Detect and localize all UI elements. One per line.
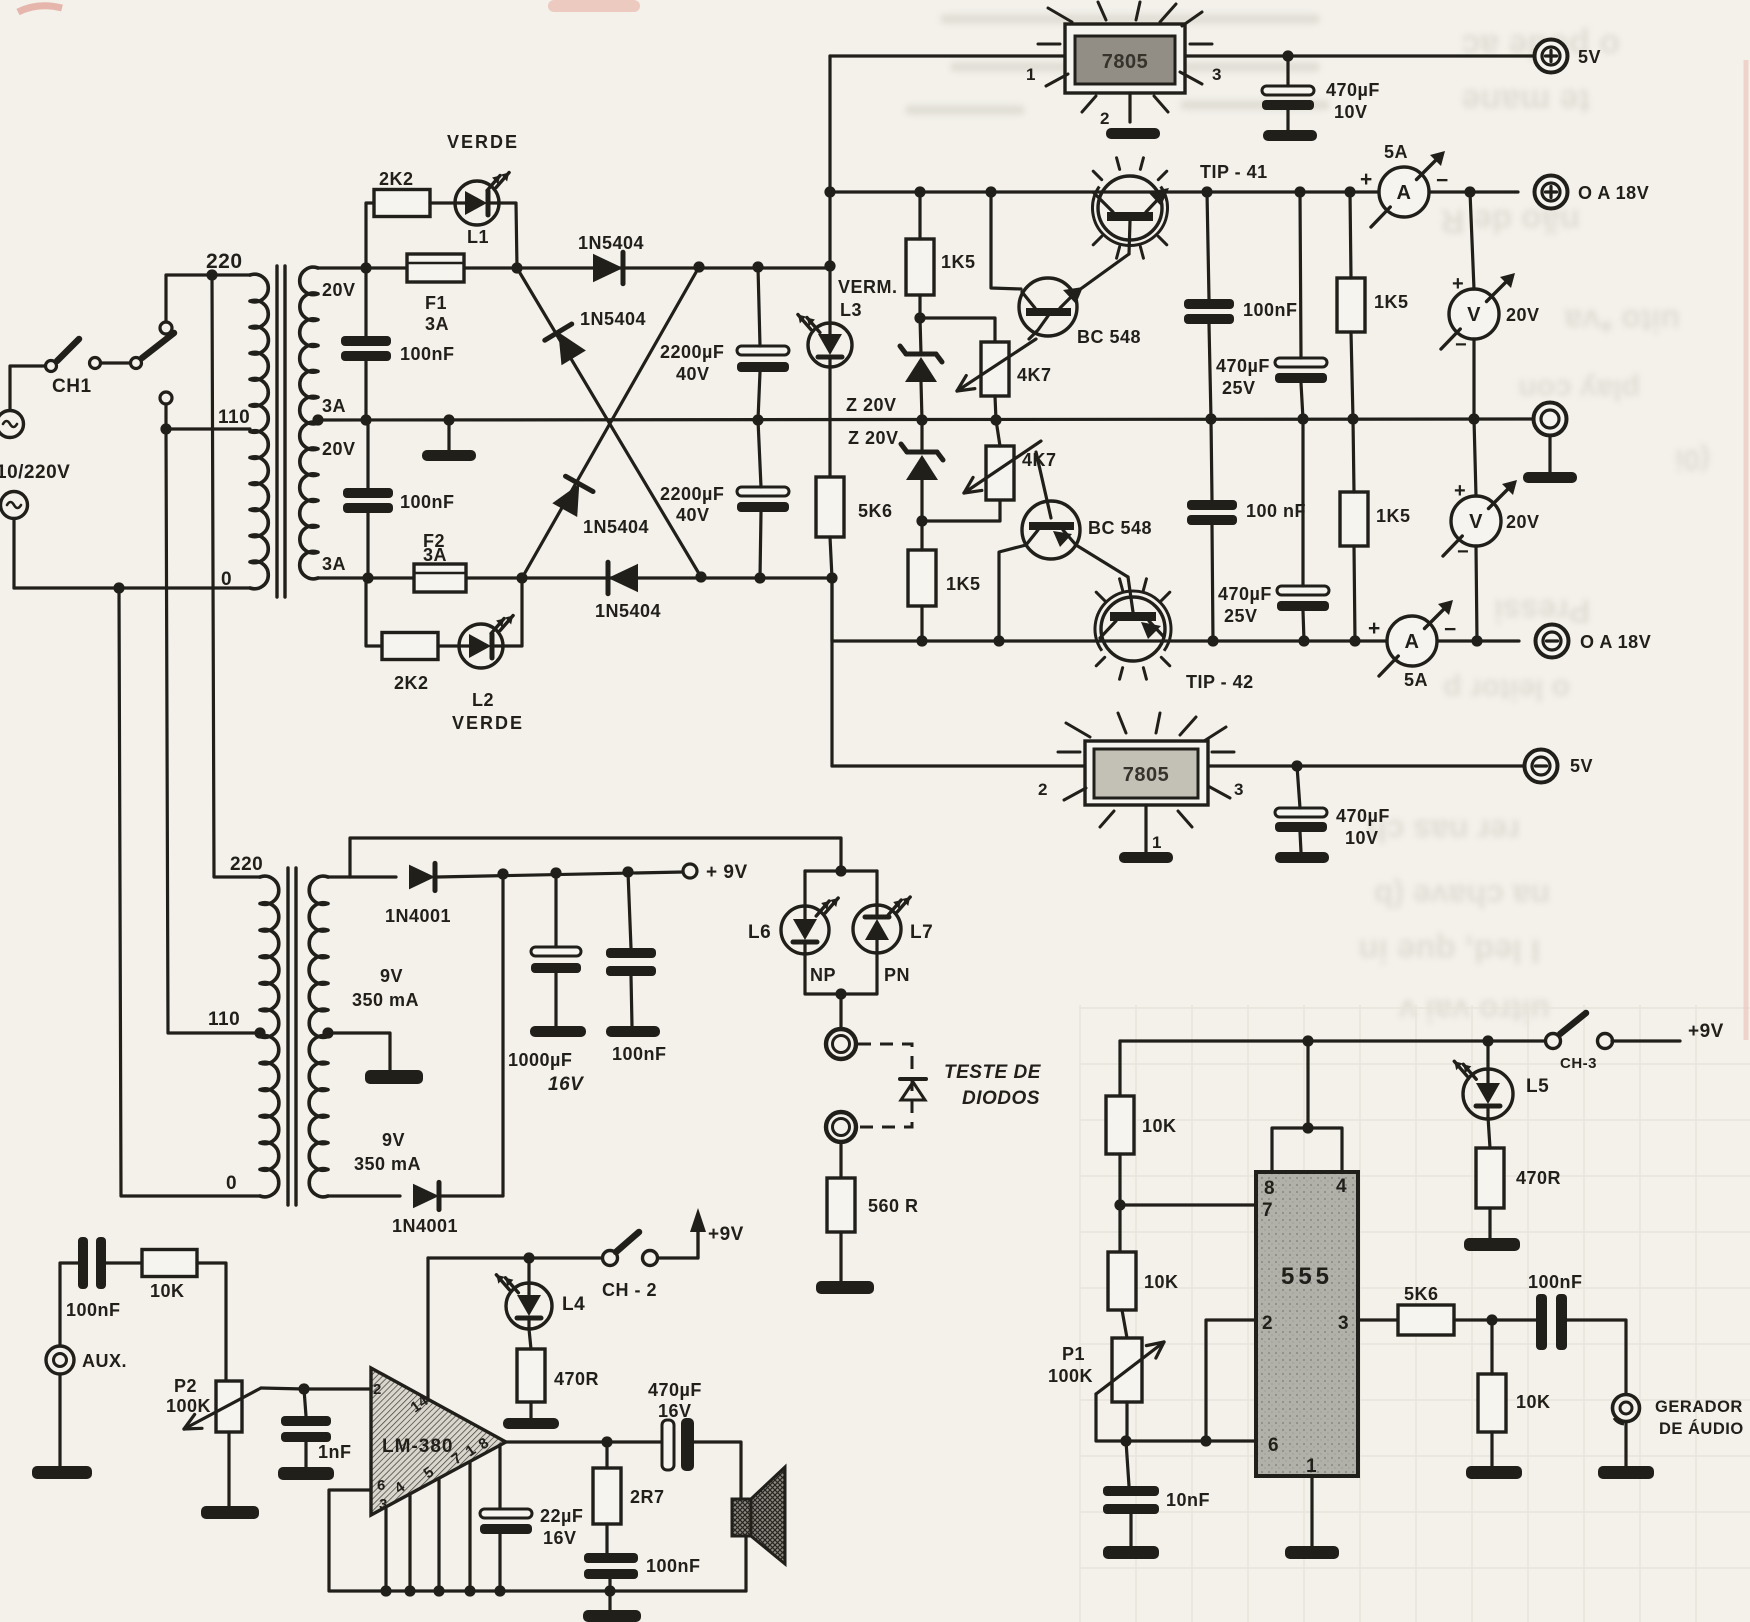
wire 9V return riser <box>441 874 503 1196</box>
svg-text:5V: 5V <box>1570 756 1593 776</box>
svg-text:100nF: 100nF <box>66 1300 121 1320</box>
junction T2 110 tap <box>254 1027 265 1038</box>
transformer T2 core <box>286 868 289 1205</box>
junction bus-Vmeter <box>1464 186 1475 197</box>
junction +5V / 470uF <box>1282 50 1293 61</box>
svg-text:25V: 25V <box>1224 606 1258 626</box>
speaker <box>732 1499 751 1536</box>
wire 10K-c top <box>1490 1320 1493 1374</box>
svg-text:GERADOR: GERADOR <box>1655 1398 1743 1416</box>
terminal +9V small <box>683 864 697 878</box>
junction 9V-1000uF <box>550 867 561 878</box>
svg-text:1: 1 <box>1306 1456 1317 1477</box>
wire speaker to bus <box>744 1536 747 1591</box>
svg-text:1K5: 1K5 <box>941 252 976 272</box>
wire cap to speaker <box>694 1442 741 1499</box>
svg-text:P2: P2 <box>174 1376 197 1396</box>
wire 10K-c gnd <box>1490 1432 1493 1466</box>
svg-text:7805: 7805 <box>1102 51 1149 73</box>
wire AC upper to CH1 <box>10 366 45 410</box>
wire L6L7 top bridge <box>805 869 877 872</box>
svg-text:+: + <box>1452 273 1464 295</box>
junction mid-100nFb <box>1205 413 1216 424</box>
capacitor 100nF 555 <box>1536 1294 1547 1350</box>
ground 560R <box>816 1281 874 1294</box>
junction mid-100nF-left-a <box>360 414 371 425</box>
ground 100nF9 <box>606 1026 660 1037</box>
svg-text:40V: 40V <box>676 505 710 525</box>
resistor 1K5c <box>1337 278 1365 332</box>
resistor 1K5a <box>906 239 934 295</box>
ground 7805a <box>1106 128 1160 139</box>
svg-text:L5: L5 <box>1526 1076 1549 1097</box>
svg-text:100nF: 100nF <box>1243 300 1298 320</box>
wire V1 col <box>1470 192 1474 289</box>
svg-text:te mane: te mane <box>1462 82 1591 120</box>
svg-text:VERM.: VERM. <box>838 277 898 297</box>
svg-text:10K: 10K <box>1144 1272 1179 1292</box>
junction bus 100nF out <box>604 1585 615 1596</box>
svg-text:1: 1 <box>1152 833 1162 852</box>
wire 2200a col <box>758 267 760 346</box>
svg-text:o leitor p: o leitor p <box>1443 673 1570 706</box>
svg-text:350 mA: 350 mA <box>352 990 419 1010</box>
wire 560R to gnd <box>839 1232 842 1281</box>
pot 4K7-a <box>981 342 1009 396</box>
terminal +18V <box>1535 176 1568 209</box>
jack AUX <box>46 1346 74 1374</box>
wire 10K-b to P1 <box>1122 1310 1127 1338</box>
svg-text:9V: 9V <box>380 966 403 986</box>
wire 10K-a to 10K-b <box>1118 1154 1121 1252</box>
svg-text:5V: 5V <box>1578 47 1601 67</box>
svg-text:100nF: 100nF <box>612 1044 667 1064</box>
transformer T1 core <box>275 266 278 597</box>
ground T2 tap <box>365 1070 423 1084</box>
wire pin3 out <box>1358 1318 1398 1321</box>
svg-text:10K: 10K <box>150 1281 185 1301</box>
svg-text:rer nas ch: rer nas ch <box>1367 813 1520 849</box>
resistor 10K-b <box>1108 1252 1136 1310</box>
svg-text:555: 555 <box>1281 1263 1333 1290</box>
wire pin14 riser <box>426 1258 429 1400</box>
resistor 470R-b <box>1476 1148 1504 1208</box>
wire mid 0V rail <box>318 419 1533 420</box>
svg-text:4: 4 <box>1336 1176 1347 1197</box>
wire CH1 110 contact to 110 line <box>164 404 167 429</box>
pot P2 <box>216 1381 242 1432</box>
junction -bus 470uF25c <box>1298 635 1309 646</box>
svg-text:−: − <box>1436 169 1449 192</box>
transistor TIP-42 <box>1101 597 1165 661</box>
wire 2200b col <box>758 420 761 487</box>
svg-text:BC 548: BC 548 <box>1088 518 1152 538</box>
svg-text:Pressi: Pressi <box>1494 593 1590 629</box>
resistor 10K-a <box>1106 1096 1134 1154</box>
svg-text:NP: NP <box>810 965 836 985</box>
jack GERADOR <box>1613 1395 1640 1422</box>
ground 10K-c <box>1466 1466 1522 1479</box>
junction bus p3 <box>380 1585 391 1596</box>
resistor 10K-c <box>1478 1374 1506 1432</box>
svg-text:560 R: 560 R <box>868 1196 919 1216</box>
junction L5 tap <box>1482 1035 1493 1046</box>
wire bridge positive output <box>318 266 406 269</box>
svg-text:V: V <box>1469 511 1483 533</box>
wire pot1 bottom <box>995 396 996 420</box>
switch CH1 <box>46 361 57 372</box>
LED L7 <box>853 905 901 953</box>
switch CH-3 <box>1546 1034 1561 1049</box>
wire 7805b pin1 <box>1144 805 1147 852</box>
wire pin6 loop <box>329 1490 386 1591</box>
wire P2 bottom <box>227 1432 230 1506</box>
svg-text:−: − <box>1455 334 1467 356</box>
ground P2 <box>201 1506 259 1519</box>
junction pin2 node <box>1200 1435 1211 1446</box>
capacitor 100nF out <box>584 1553 638 1563</box>
junction riser-bus <box>824 186 835 197</box>
transistor BC548-b <box>1022 501 1080 559</box>
wire BC548b emitter to TIP42 base <box>1076 545 1128 577</box>
svg-text:VERDE: VERDE <box>452 713 524 733</box>
capacitor 470uF10-a <box>1262 86 1314 95</box>
svg-text:100K: 100K <box>166 1396 211 1416</box>
junction bridge+ riser <box>824 260 835 271</box>
wire 110 line <box>166 427 250 430</box>
junction bridge+ F1 left <box>360 262 371 273</box>
svg-text:10K: 10K <box>1142 1116 1177 1136</box>
svg-text:+ 9V: + 9V <box>706 862 748 883</box>
junction bus p7 <box>464 1585 475 1596</box>
capacitor 1nF <box>281 1416 331 1426</box>
svg-text:+: + <box>1360 168 1373 191</box>
wire BC548a collector <box>991 192 1021 289</box>
junction -bus 100nFc <box>1207 635 1218 646</box>
wire pin6 line <box>1126 1439 1266 1442</box>
junction L6L7 top <box>835 865 846 876</box>
junction bridge- diagA <box>695 571 706 582</box>
capacitor 100nF winding-a <box>341 336 391 346</box>
svg-text:1N5404: 1N5404 <box>580 309 646 329</box>
wire -5V line <box>832 764 1085 767</box>
wire 1K5b leads <box>920 521 923 550</box>
junction bridge+ D1 left <box>511 262 522 273</box>
resistor 10K input <box>142 1250 197 1277</box>
junction output-2R7 <box>601 1436 612 1447</box>
svg-text:3A: 3A <box>425 314 449 334</box>
capacitor 100nF winding-b <box>343 488 393 498</box>
resistor 470R-a <box>517 1349 545 1402</box>
wire lm380 ground bus <box>386 1589 746 1592</box>
wire BC548a emitter to TIP41 base <box>1075 254 1129 293</box>
ground AUX <box>32 1466 92 1479</box>
ground 7805b <box>1119 852 1173 863</box>
fuse F1 <box>407 254 464 282</box>
wire L4-470R <box>529 1329 531 1349</box>
junction pin7 <box>1114 1199 1125 1210</box>
svg-text:470R: 470R <box>554 1369 599 1389</box>
resistor 5K6 555 <box>1398 1305 1454 1335</box>
junction bridge+ diagB <box>693 261 704 272</box>
svg-text:350 mA: 350 mA <box>354 1154 421 1174</box>
ammeter A2 <box>1387 616 1437 666</box>
transformer T1 primary winding <box>250 274 268 589</box>
svg-text:1N5404: 1N5404 <box>595 601 661 621</box>
resistor 560R <box>827 1178 855 1232</box>
ground 470R a <box>503 1418 559 1429</box>
wire bridge diagonal B <box>522 267 699 578</box>
junction 1nF <box>298 1383 309 1394</box>
diode 1N5404 bottom <box>608 564 638 592</box>
svg-text:470µF: 470µF <box>1326 80 1380 100</box>
svg-text:Z 20V: Z 20V <box>846 395 897 415</box>
capacitor 100nF input <box>78 1237 88 1289</box>
svg-text:470R: 470R <box>1516 1168 1561 1188</box>
svg-text:6: 6 <box>1268 1435 1279 1456</box>
svg-text:2: 2 <box>1262 1313 1273 1334</box>
junction T2 sec mid tap <box>322 1027 333 1038</box>
svg-text:2K2: 2K2 <box>394 673 429 693</box>
junction mid-pots <box>990 414 1001 425</box>
wire cap to gerador <box>1567 1320 1626 1394</box>
svg-text:6: 6 <box>377 1477 386 1494</box>
terminal +5V <box>1535 40 1568 73</box>
svg-text:3: 3 <box>1338 1313 1349 1334</box>
svg-text:1K5: 1K5 <box>946 574 981 594</box>
junction pin6 node <box>1120 1435 1131 1446</box>
svg-text:uito *va: uito *va <box>1564 303 1680 339</box>
wire 5K6 to node <box>1454 1318 1536 1321</box>
capacitor 2200uF-b <box>737 487 789 496</box>
capacitor 470uF10-b <box>1275 808 1327 817</box>
ammeter A1 <box>1379 167 1429 217</box>
wire T2 sec mid tap <box>328 1033 390 1070</box>
wire pin7 <box>1120 1203 1256 1206</box>
junction mid-gnd <box>443 414 454 425</box>
wire 1000uF col <box>554 873 557 947</box>
svg-text:5K6: 5K6 <box>1404 1284 1439 1304</box>
wire aux gnd <box>58 1374 61 1466</box>
junction -bus 1K5d2 <box>1349 635 1360 646</box>
junction bridge+ cap2200a <box>752 261 763 272</box>
wire L6L7 bottom bridge <box>805 953 877 994</box>
diode 1N5404 diagB <box>552 484 579 517</box>
svg-text:+9V: +9V <box>1688 1021 1724 1042</box>
svg-text:F1: F1 <box>425 293 447 313</box>
svg-text:1K5: 1K5 <box>1376 506 1411 526</box>
svg-text:10nF: 10nF <box>1166 1490 1210 1510</box>
svg-text:AUX.: AUX. <box>82 1351 127 1371</box>
wire 100nF rail-b col <box>1211 419 1212 500</box>
junction bracket <box>1302 1122 1313 1133</box>
dashed test diode path <box>858 1044 912 1127</box>
svg-text:P1: P1 <box>1062 1344 1085 1364</box>
zener Z20V-1 <box>906 352 936 357</box>
svg-text:25V: 25V <box>1222 378 1256 398</box>
transformer T2 primary winding <box>260 876 279 1197</box>
svg-text:O A 18V: O A 18V <box>1580 632 1651 652</box>
transistor TIP-41 <box>1098 176 1162 240</box>
junction L4 tap <box>523 1252 534 1263</box>
wire P1 wiper down <box>1096 1394 1126 1441</box>
svg-text:+9V: +9V <box>708 1224 744 1245</box>
junction 220 <box>206 269 217 280</box>
wire 100nF col-b <box>366 420 369 488</box>
svg-text:1nF: 1nF <box>318 1442 352 1462</box>
arrow +9V ch2 <box>696 1226 699 1258</box>
diode 1N5404 top <box>593 254 623 282</box>
svg-text:5A: 5A <box>1404 670 1428 690</box>
switch CH-2 <box>603 1251 618 1266</box>
svg-text:7805: 7805 <box>1123 764 1170 786</box>
svg-text:+: + <box>1368 617 1381 640</box>
svg-text:na chave (b: na chave (b <box>1374 878 1550 914</box>
wire +5V output line <box>830 54 1063 57</box>
terminal 0V <box>1534 403 1567 436</box>
svg-text:470µF: 470µF <box>1216 356 1270 376</box>
junction mid-Vmeter2 <box>1468 413 1479 424</box>
svg-text:3: 3 <box>1212 65 1222 84</box>
svg-text:100K: 100K <box>1048 1366 1093 1386</box>
svg-text:470µF: 470µF <box>648 1380 702 1400</box>
wire 470R-b gnd <box>1488 1208 1491 1238</box>
svg-text:16V: 16V <box>543 1528 577 1548</box>
junction 0 line <box>113 582 124 593</box>
svg-text:1: 1 <box>1026 65 1036 84</box>
svg-text:VERDE: VERDE <box>447 132 519 152</box>
junction mid-zener1 <box>916 414 927 425</box>
ground 0V terminal <box>1548 436 1551 472</box>
svg-text:3A: 3A <box>423 545 447 565</box>
wire jack2 to 560R <box>839 1142 842 1178</box>
diode 1N4001-a <box>409 865 435 890</box>
junction bus-470uF25a <box>1294 186 1305 197</box>
junction T1 sec mid tap <box>312 414 323 425</box>
resistor 2K2b <box>382 633 438 660</box>
svg-text:3: 3 <box>1234 780 1244 799</box>
resistor 5K6 <box>816 477 844 537</box>
svg-text:CH-3: CH-3 <box>1560 1055 1597 1072</box>
test jack upper <box>826 1029 856 1059</box>
capacitor 10nF <box>1103 1486 1159 1496</box>
svg-text:10V: 10V <box>1345 828 1379 848</box>
ground 1000uF <box>530 1026 586 1037</box>
junction L6L7 bottom <box>835 988 846 999</box>
zener Z20V-2 <box>907 450 937 455</box>
svg-text:L2: L2 <box>472 690 494 710</box>
svg-text:110/220V: 110/220V <box>0 462 70 483</box>
wire 1K5a leads <box>918 192 921 239</box>
wire 220 drop to T2 <box>212 275 260 877</box>
op-amp LM-380 <box>371 1368 506 1515</box>
svg-text:5K6: 5K6 <box>858 501 893 521</box>
capacitor 100nF 9V <box>606 948 656 958</box>
diode 1N5404 diagA <box>558 332 586 365</box>
svg-text:PN: PN <box>884 965 910 985</box>
wire 10K to P2 <box>197 1263 226 1381</box>
junction 110 <box>160 423 171 434</box>
svg-text:(0i: (0i <box>1675 443 1710 476</box>
svg-text:play con: play con <box>1518 373 1640 406</box>
wire 1K5c leads <box>1350 192 1351 278</box>
junction bus-BC548a <box>985 186 996 197</box>
svg-text:20V: 20V <box>322 280 356 300</box>
wire AC lower to 0 rail <box>12 519 15 588</box>
svg-text:−: − <box>1444 618 1457 641</box>
ground 470R b <box>1464 1238 1520 1251</box>
wire P2 wiper to pin2 <box>261 1388 369 1389</box>
svg-text:2200µF: 2200µF <box>660 342 724 362</box>
wire 0 drop to T2 <box>119 588 260 1196</box>
svg-text:1N5404: 1N5404 <box>583 517 649 537</box>
wire CH2 left <box>428 1256 602 1259</box>
IC 555 <box>1256 1172 1358 1476</box>
wire BC548b collector <box>999 545 1026 641</box>
wire 100nF col-a <box>364 268 367 336</box>
junction mid-2200 <box>752 414 763 425</box>
svg-text:20V: 20V <box>1506 305 1540 325</box>
svg-text:3A: 3A <box>322 396 346 416</box>
svg-text:220: 220 <box>230 854 263 875</box>
svg-text:8: 8 <box>1264 1178 1275 1199</box>
svg-text:100nF: 100nF <box>646 1556 701 1576</box>
junction bridge- cap2200b <box>754 572 765 583</box>
junction 555 supply <box>1302 1035 1313 1046</box>
wire 555 pin1 <box>1310 1476 1313 1546</box>
junction bus-1K5a <box>914 186 925 197</box>
wire 470uF10-a <box>1286 56 1289 86</box>
diode 1N4001-b <box>413 1184 439 1209</box>
wire 100nF9 col <box>628 872 631 948</box>
svg-text:5A: 5A <box>1384 142 1408 162</box>
wire to test jack1 <box>839 994 842 1029</box>
svg-text:A: A <box>1405 631 1420 653</box>
svg-text:100 nF: 100 nF <box>1246 501 1306 521</box>
svg-text:V: V <box>1467 304 1481 326</box>
wire 100nF rail-a col <box>1207 192 1209 299</box>
wire 22uF bottom <box>498 1534 501 1591</box>
junction audio node <box>1486 1314 1497 1325</box>
wire 555 supply bracket <box>1272 1128 1342 1172</box>
AC source terminal lower <box>1 492 28 519</box>
wire +18V bus <box>830 190 1379 193</box>
terminal -5V <box>1525 750 1558 783</box>
LED L3 red <box>808 323 852 367</box>
LED L6 <box>781 906 829 954</box>
svg-text:1N4001: 1N4001 <box>385 906 451 926</box>
svg-text:100nF: 100nF <box>400 344 455 364</box>
wire bridge diagonal A <box>517 268 701 577</box>
capacitor 100nF rail-a <box>1184 299 1234 309</box>
junction bus-1K5c <box>1344 186 1355 197</box>
wire bus ground stub <box>608 1591 611 1610</box>
wire -18V bus <box>832 639 1387 642</box>
wire +9V line <box>437 872 683 877</box>
wire lm380 output <box>506 1440 662 1443</box>
regulator 7805-a <box>1065 24 1185 93</box>
svg-text:2200µF: 2200µF <box>660 484 724 504</box>
capacitor 100nF rail-b <box>1187 500 1237 510</box>
svg-text:TIP - 42: TIP - 42 <box>1186 672 1254 692</box>
junction bus-100nF <box>1201 186 1212 197</box>
svg-text:100nF: 100nF <box>1528 1272 1583 1292</box>
wire node1 to pot1 <box>920 318 995 342</box>
wire 2R7 bottom <box>605 1524 608 1553</box>
svg-text:L6: L6 <box>748 922 771 943</box>
svg-text:DIODOS: DIODOS <box>962 1088 1040 1109</box>
junction -bus Vmeter2 <box>1471 635 1482 646</box>
